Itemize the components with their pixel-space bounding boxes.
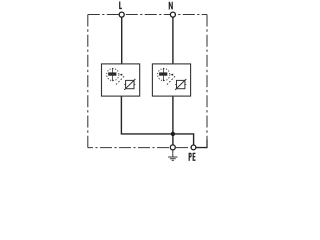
terminal PE [191, 145, 196, 150]
junction dot [171, 132, 175, 136]
SPD module N [152, 64, 190, 96]
enclosure boundary left (dash-dot) [87, 15, 89, 148]
wire L lead [121, 15, 123, 64]
label PE [189, 153, 192, 161]
wire N lead [172, 15, 174, 64]
wire right module to junction [172, 96, 174, 134]
wire PE terminal to boundary corner [196, 140, 207, 148]
wire junction to PE terminal [173, 134, 194, 147]
enclosure boundary bottom (dash-dot) [88, 147, 207, 149]
SPD module L [102, 64, 140, 96]
wire left module to collector [121, 96, 172, 134]
terminal L [119, 12, 124, 17]
wire junction to earth terminal [172, 134, 174, 148]
label N [169, 2, 173, 10]
enclosure boundary right (dash-dot) [206, 15, 208, 148]
terminal N [170, 12, 175, 17]
enclosure boundary top (dash-dot) [88, 14, 207, 16]
terminal earth [170, 145, 175, 150]
label L [119, 2, 122, 10]
ground symbol [168, 150, 177, 160]
